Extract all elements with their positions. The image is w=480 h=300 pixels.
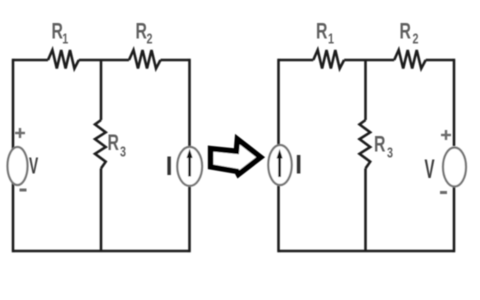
- arrow inside current source (right): [277, 149, 283, 177]
- resistor R1 (right circuit, top): [313, 50, 344, 69]
- label + (left V): [15, 128, 25, 138]
- resistor R2 (right circuit, top): [394, 50, 426, 69]
- svg-text:R: R: [136, 20, 148, 44]
- resistor R3 (left circuit, middle): [95, 120, 106, 168]
- wire: left circuit left side upper: [12, 59, 15, 150]
- label R3 (right circuit): [374, 133, 393, 161]
- svg-text:3: 3: [387, 144, 393, 161]
- label - (right V): [440, 191, 447, 194]
- wire: right circuit top-right segment: [426, 59, 454, 62]
- wire: left circuit bottom: [13, 250, 190, 253]
- wire: right circuit middle branch lower: [364, 168, 367, 251]
- label R1 (right circuit): [316, 20, 334, 47]
- svg-text:2: 2: [413, 30, 419, 47]
- label + (right V): [441, 130, 451, 140]
- wire: left circuit top-left segment: [13, 59, 48, 62]
- svg-text:R: R: [400, 20, 412, 44]
- wire: right circuit right side lower: [453, 187, 456, 253]
- resistor R3 (right circuit, middle): [360, 120, 371, 168]
- svg-text:R: R: [316, 20, 328, 44]
- wire: left circuit top middle segment: [79, 59, 129, 62]
- resistor R2 (left circuit, top): [129, 50, 161, 69]
- wire: right circuit middle branch upper: [364, 60, 367, 120]
- wire: left circuit left side lower: [12, 183, 15, 252]
- svg-text:R: R: [108, 132, 120, 156]
- wire: right circuit left side lower: [277, 186, 280, 253]
- wire: right circuit top middle segment: [344, 59, 394, 62]
- big block arrow: [211, 139, 261, 174]
- label R1 (left circuit): [52, 20, 69, 47]
- svg-text:I: I: [295, 150, 302, 179]
- svg-text:3: 3: [120, 143, 126, 160]
- wire: left circuit right side upper: [188, 59, 191, 147]
- svg-text:V: V: [29, 154, 38, 179]
- wire: left circuit middle branch lower: [100, 168, 103, 251]
- label R2 (left circuit): [136, 20, 153, 47]
- svg-text:1: 1: [328, 30, 334, 47]
- wire: right circuit top-left segment: [279, 59, 314, 62]
- voltage source V (left circuit): [8, 147, 28, 185]
- current source I (left circuit): [177, 147, 202, 186]
- svg-text:R: R: [52, 20, 64, 44]
- current source I (right circuit): [268, 145, 291, 185]
- wire: left circuit top-right segment: [161, 59, 190, 62]
- svg-text:V: V: [425, 153, 435, 184]
- arrow inside current source (left): [187, 149, 193, 177]
- wire: right circuit left side upper: [277, 59, 280, 146]
- wire: left circuit middle branch upper: [100, 60, 103, 120]
- svg-text:1: 1: [62, 30, 68, 47]
- resistor R1 (left circuit, top): [48, 50, 79, 69]
- svg-text:2: 2: [147, 30, 153, 47]
- wire: right circuit bottom: [279, 250, 455, 253]
- wire: left circuit right side lower: [188, 186, 191, 252]
- wire: right circuit right side upper: [453, 59, 456, 146]
- label R2 (right circuit): [400, 20, 419, 47]
- label - (left V): [20, 189, 27, 192]
- svg-text:R: R: [374, 133, 386, 157]
- label R3 (left circuit): [108, 132, 127, 160]
- voltage source V (right circuit): [443, 148, 466, 187]
- svg-text:I: I: [166, 152, 173, 181]
